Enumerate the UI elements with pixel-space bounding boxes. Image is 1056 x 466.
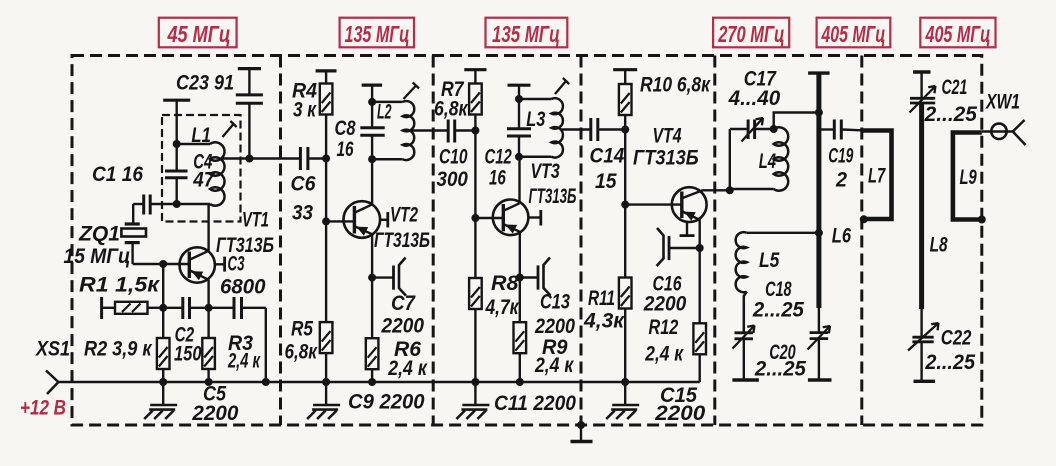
connector XW1 <box>982 120 1026 145</box>
trimmer arrow of L1 <box>223 121 237 137</box>
resistor R12 (2.4k) <box>693 248 706 382</box>
svg-text:R11: R11 <box>588 287 615 310</box>
resistor R9 (2.4k) <box>514 278 527 383</box>
node bus R8 <box>471 378 479 386</box>
svg-text:C14: C14 <box>590 145 625 168</box>
wire base node to VT3 <box>475 217 503 219</box>
svg-text:150: 150 <box>174 343 202 366</box>
node base VT1 <box>159 260 167 268</box>
svg-text:16: 16 <box>337 138 354 161</box>
node bus R2 <box>159 378 167 386</box>
capacitor C1 (16) <box>133 195 177 224</box>
wire L2 tap to stage 3 <box>412 129 447 131</box>
svg-text:C8: C8 <box>335 117 356 140</box>
standoff capacitor C7 (2200) <box>372 258 406 296</box>
capacitor C19 (2) <box>819 120 861 140</box>
case lead of VT2 <box>380 212 388 227</box>
case lead of VT4 <box>680 222 695 236</box>
svg-text:C22: C22 <box>941 327 972 350</box>
svg-text:2...25: 2...25 <box>752 299 804 322</box>
ground stage 3 <box>456 382 489 419</box>
node on L6 top <box>815 109 823 117</box>
svg-text:C10: C10 <box>439 146 468 169</box>
inductor L5 <box>736 232 747 332</box>
case lead of VT3 <box>528 210 540 226</box>
svg-text:16: 16 <box>489 167 506 190</box>
node tank4 top right <box>770 125 778 133</box>
svg-text:L4: L4 <box>759 150 776 173</box>
svg-text:+12 В: +12 В <box>20 397 66 420</box>
node bus R6 <box>368 378 376 386</box>
tank 3 top tie bar <box>508 85 531 99</box>
node bus C3 <box>262 378 270 386</box>
svg-text:C12: C12 <box>485 146 513 169</box>
node tank3 bottom <box>515 153 523 161</box>
svg-text:L7: L7 <box>868 165 886 188</box>
svg-text:2200: 2200 <box>381 315 425 338</box>
inner dashed screen box around L1 C4 <box>162 115 241 222</box>
svg-text:2...25: 2...25 <box>924 103 978 126</box>
svg-text:C21: C21 <box>942 76 968 99</box>
node L7 to shield <box>860 215 868 223</box>
node row left <box>159 304 167 312</box>
svg-text:R10 6,8к: R10 6,8к <box>640 74 711 97</box>
standoff capacitor C13 (2200) <box>520 258 551 296</box>
svg-text:C1 16: C1 16 <box>92 163 143 186</box>
trimmer arrow of L2 <box>404 82 420 99</box>
wire L1 tap to stage 2 <box>222 157 300 159</box>
node tank1 bottom <box>173 200 181 208</box>
capacitor C14 (15) coupling <box>591 118 625 141</box>
strip line L9 <box>953 133 982 220</box>
node R4/C6 <box>322 155 330 163</box>
crystal ZQ1 <box>121 224 146 264</box>
svg-text:6,8к: 6,8к <box>434 98 469 121</box>
svg-text:C11 2200: C11 2200 <box>494 392 576 415</box>
svg-text:C6: C6 <box>291 173 316 196</box>
svg-text:VT1: VT1 <box>242 209 269 232</box>
svg-text:4...40: 4...40 <box>728 87 781 110</box>
svg-text:R12: R12 <box>649 316 679 339</box>
wire tank4 left side <box>729 129 731 190</box>
node emitter VT2 <box>368 274 376 282</box>
wire down to base VT4 <box>624 130 626 205</box>
trimmer capacitor C17 (4...40) <box>730 118 774 142</box>
label box 135 MHz (stage 3) <box>486 18 568 48</box>
svg-text:2: 2 <box>835 169 847 192</box>
ground stage 1 <box>144 382 177 419</box>
svg-text:ГТ313Б: ГТ313Б <box>374 229 430 252</box>
wire down to base VT3 <box>474 131 476 219</box>
svg-text:VT2: VT2 <box>390 204 418 227</box>
transistor VT3 <box>493 157 529 278</box>
node base VT2 <box>322 217 330 225</box>
shield enclosure dashed border <box>72 56 982 426</box>
node emitter VT4 <box>696 244 704 252</box>
svg-text:R1 1,5к: R1 1,5к <box>79 274 160 297</box>
resistor R6 (2.4k) <box>366 278 379 382</box>
resistor R5 (6.8k) <box>320 221 333 382</box>
node R7/C10 <box>471 127 479 135</box>
svg-text:ГТ313Б: ГТ313Б <box>529 185 577 208</box>
svg-text:ГТ313Б: ГТ313Б <box>216 234 274 257</box>
svg-text:C13: C13 <box>540 291 570 314</box>
svg-text:R8: R8 <box>491 272 519 295</box>
resistor R4 (3k) <box>316 71 337 159</box>
node R10/C14 <box>621 126 629 134</box>
node L5 tap on L6 <box>815 229 823 237</box>
svg-text:33: 33 <box>292 202 313 225</box>
label box 405 MHz (output) <box>920 18 995 48</box>
svg-text:4,3к: 4,3к <box>583 310 625 333</box>
shield wall 5 (405/405 MHz) <box>860 56 863 426</box>
resistor R7 (6.8k) <box>464 70 486 131</box>
svg-text:135 МГц: 135 МГц <box>345 21 410 47</box>
+12V supply bus wire <box>58 381 699 383</box>
ground stage 2 <box>307 382 340 419</box>
wire L5 to L6 <box>747 232 819 234</box>
svg-text:VT4: VT4 <box>653 125 682 148</box>
node emitter VT3 <box>516 274 524 282</box>
svg-text:2...25: 2...25 <box>924 351 975 374</box>
ground stage 4 <box>606 382 639 419</box>
svg-text:45 МГц: 45 МГц <box>167 21 231 47</box>
svg-text:C23 91: C23 91 <box>176 72 234 95</box>
wire L3 tap to stage 4 <box>561 128 590 130</box>
svg-text:L8: L8 <box>930 234 948 257</box>
trimmer capacitor C20 (2...25) <box>808 308 832 380</box>
svg-text:405 МГц: 405 МГц <box>925 21 991 47</box>
capacitor C3 (6800) <box>209 297 266 382</box>
capacitor C8 (16) in tank <box>360 102 384 159</box>
trimmer capacitor C22 (2...25) <box>908 323 939 381</box>
svg-text:405 МГц: 405 МГц <box>821 21 886 47</box>
trimmer arrow of L3 <box>555 78 569 94</box>
node tank2 bottom <box>368 155 376 163</box>
wire base node down to R1/C2 row <box>162 264 164 382</box>
wire base node to VT2 <box>326 220 354 222</box>
wire base node to VT4 <box>625 203 682 205</box>
shield wall 4 (270/405 MHz) <box>713 56 716 426</box>
label box 45 MHz <box>159 18 237 48</box>
strip line L6 <box>808 73 830 308</box>
node bus R3 <box>205 378 213 386</box>
svg-text:3 к: 3 к <box>293 99 317 122</box>
svg-text:2200: 2200 <box>191 402 238 425</box>
svg-text:300: 300 <box>437 168 469 191</box>
transistor VT4 <box>672 187 730 248</box>
svg-text:L5: L5 <box>759 249 780 272</box>
svg-text:135 МГц: 135 МГц <box>492 21 560 47</box>
capacitor C12 (16) in tank <box>507 99 531 157</box>
svg-text:6800: 6800 <box>220 276 266 299</box>
node tank3 top <box>515 95 523 103</box>
inductor L1 <box>177 142 225 205</box>
svg-text:XW1: XW1 <box>985 91 1020 114</box>
capacitor C2 (150) <box>163 297 208 319</box>
resistor R1 (1.5k) horizontal with end bar <box>102 297 164 319</box>
label box 405 MHz (L6/L7) <box>817 18 891 48</box>
node base VT3 <box>471 214 479 222</box>
shield wall 3 (135/270 MHz) <box>580 56 583 426</box>
node base VT4 <box>621 201 629 209</box>
wire tank4 to line L6 <box>774 113 819 130</box>
label box 270 MHz <box>713 18 789 48</box>
svg-text:L6: L6 <box>832 225 852 248</box>
capacitor C6 (33) coupling <box>300 147 326 170</box>
svg-text:R2 3,9 к: R2 3,9 к <box>84 338 153 361</box>
svg-text:2...25: 2...25 <box>754 358 806 381</box>
svg-text:L9: L9 <box>960 166 977 189</box>
node bus R11 <box>621 378 629 386</box>
svg-text:C19: C19 <box>828 145 853 168</box>
tank top tie bar and stem <box>163 100 190 144</box>
svg-text:15 МГц: 15 МГц <box>64 245 131 268</box>
svg-text:6,8к: 6,8к <box>285 341 319 364</box>
wire crystal to base of VT1 <box>133 263 190 265</box>
capacitor C10 (300) coupling <box>448 120 475 143</box>
resistor R10 (6.8k) <box>613 70 637 130</box>
shield wall 2 (135/135 MHz) <box>432 56 435 426</box>
case lead of VT1 <box>215 257 225 272</box>
strip line L7 <box>862 131 892 220</box>
svg-text:2,4 к: 2,4 к <box>227 350 261 373</box>
svg-text:VT3: VT3 <box>531 160 561 183</box>
resistor R8 (4.7k) <box>469 218 482 382</box>
node bus R9 <box>516 378 524 386</box>
svg-text:C9 2200: C9 2200 <box>348 391 425 414</box>
inductor L4 <box>730 127 788 190</box>
wire down to base VT2 <box>325 159 327 222</box>
node L9 to shield <box>978 216 986 224</box>
svg-text:2,4 к: 2,4 к <box>534 354 574 377</box>
svg-text:ГТ313Б: ГТ313Б <box>633 147 699 170</box>
strip line L8 with tie bar <box>913 72 931 337</box>
capacitor C23 (91 pF) <box>236 69 263 159</box>
svg-text:2200: 2200 <box>534 315 575 338</box>
svg-text:270 МГц: 270 МГц <box>717 21 784 47</box>
label box 135 MHz (stage 2) <box>340 18 414 48</box>
svg-text:L1: L1 <box>191 124 211 147</box>
svg-text:R5: R5 <box>291 318 313 341</box>
node C23 to tap <box>245 155 253 163</box>
svg-text:2,4 к: 2,4 к <box>644 343 684 366</box>
node tank1 top <box>173 140 181 148</box>
svg-text:XS1: XS1 <box>35 338 70 361</box>
tank 2 top tie bar <box>362 85 383 102</box>
capacitor C4 (47) in tank <box>165 144 188 204</box>
chassis ground stub at bottom of shield <box>571 421 593 442</box>
shield wall 1 (45/135 MHz) <box>279 56 282 426</box>
node tank2 top <box>368 98 376 106</box>
svg-text:C3: C3 <box>228 253 245 276</box>
svg-text:2200: 2200 <box>643 293 687 316</box>
connector XS1 fork symbol <box>46 371 58 395</box>
node collector VT4 / tank4 corner <box>726 186 734 194</box>
svg-text:ZQ1: ZQ1 <box>78 223 120 246</box>
inductor L2 <box>372 101 414 160</box>
trimmer capacitor C18 (2...25) <box>732 326 759 381</box>
svg-text:15: 15 <box>595 170 617 193</box>
svg-text:2,4 к: 2,4 к <box>387 357 427 380</box>
node emitter VT1 row <box>205 304 213 312</box>
svg-text:4,7к: 4,7к <box>485 296 520 319</box>
svg-text:C7: C7 <box>391 292 416 315</box>
svg-text:2200: 2200 <box>654 402 705 425</box>
resistor R2 (3.9k) <box>157 338 170 369</box>
svg-text:L3: L3 <box>526 108 545 131</box>
svg-text:L2: L2 <box>377 101 392 124</box>
inductor L3 <box>519 98 563 157</box>
transistor VT1 <box>180 204 215 308</box>
transistor VT2 <box>344 159 381 277</box>
resistor R3 (2.4k) <box>202 308 215 382</box>
node bus R5 <box>322 378 330 386</box>
trimmer capacitor C21 (2...25) <box>910 86 936 113</box>
resistor R11 (4.3k) <box>619 205 632 382</box>
standoff capacitor C16 (2200) <box>657 228 700 266</box>
